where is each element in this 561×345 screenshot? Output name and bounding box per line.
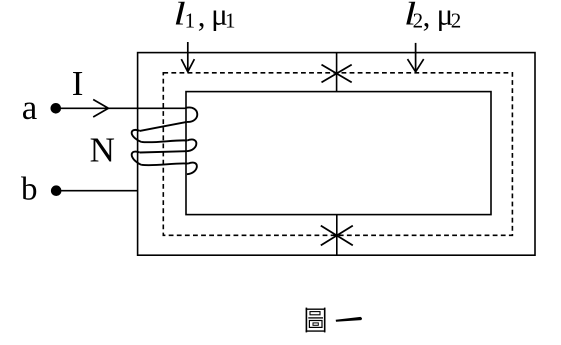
svg-text:N: N bbox=[90, 131, 115, 170]
core inner window rectangle bbox=[186, 92, 491, 215]
coil left bump 1 bbox=[132, 130, 142, 142]
svg-text:1: 1 bbox=[185, 9, 196, 33]
dashed mean flux path bbox=[163, 73, 512, 236]
arrow to flux path (l2) bbox=[408, 43, 424, 72]
svg-text:1: 1 bbox=[225, 9, 236, 33]
caption glyph 一 bbox=[336, 317, 362, 322]
arrow to flux path (l1) bbox=[181, 42, 194, 72]
coil winding N turns bbox=[132, 107, 198, 174]
coil slant 1 bbox=[140, 122, 187, 131]
coil crossing 1 bbox=[141, 140, 187, 142]
svg-text:,: , bbox=[423, 0, 431, 33]
coil turn 3 right bump bbox=[187, 163, 197, 175]
wire from a into coil bbox=[60, 107, 186, 109]
junction line bottom bbox=[336, 215, 338, 256]
svg-text:2: 2 bbox=[451, 9, 462, 33]
wire from b to core bbox=[60, 190, 138, 192]
junction X mark bottom bbox=[321, 226, 353, 246]
coil turn 1 right bump bbox=[186, 107, 198, 121]
junction line top bbox=[336, 53, 338, 92]
core outer rectangle bbox=[138, 53, 535, 256]
svg-text:b: b bbox=[21, 171, 38, 207]
junction X mark top bbox=[322, 65, 352, 83]
svg-text:I: I bbox=[72, 64, 84, 103]
caption glyph 圖 bbox=[306, 308, 326, 333]
svg-text:2: 2 bbox=[413, 9, 424, 33]
coil crossing 2 bbox=[141, 163, 188, 165]
svg-text:,: , bbox=[198, 0, 206, 33]
terminal dot a bbox=[51, 103, 62, 114]
svg-text:a: a bbox=[22, 88, 38, 127]
coil slant 2 bbox=[140, 151, 187, 152]
terminal dot b bbox=[51, 185, 62, 196]
coil turn 2 right bump bbox=[187, 139, 197, 151]
current arrowhead on a wire bbox=[93, 100, 108, 118]
coil left bump 2 bbox=[132, 152, 142, 165]
